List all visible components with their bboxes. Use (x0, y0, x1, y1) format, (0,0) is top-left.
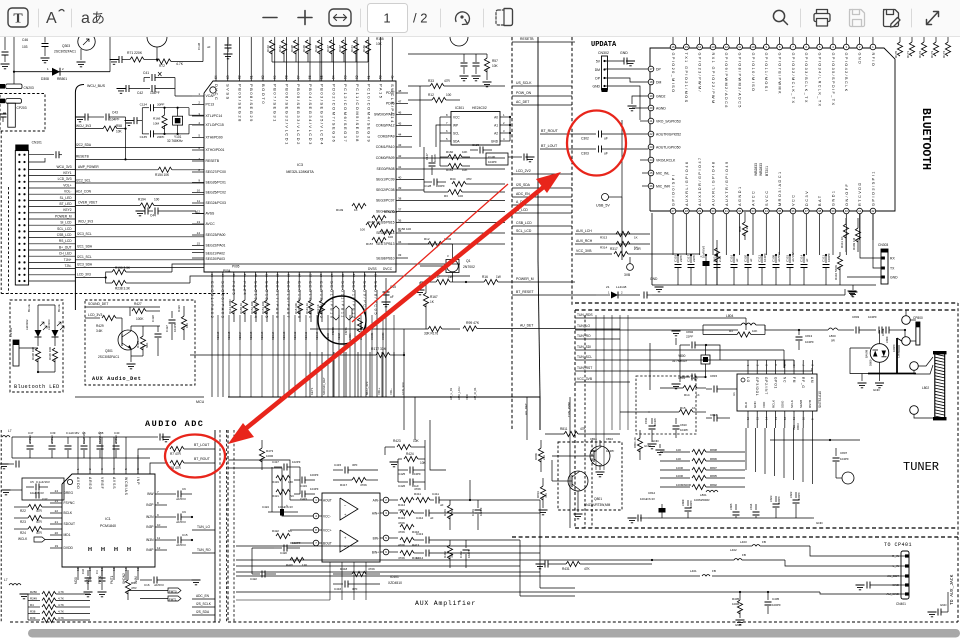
MCU top pin 53 (344, 37, 346, 81)
divider (440, 9, 442, 27)
SI4732 top pin 1 LO (747, 360, 749, 374)
svg-text:A2: A2 (494, 131, 498, 135)
vertical line x652 below BT (651, 213, 653, 285)
MCU bottom pin 30 (364, 272, 366, 290)
svg-text:MCU_3V3: MCU_3V3 (365, 381, 369, 395)
svg-text:SCLK: SCLK (790, 400, 794, 408)
PCM1840 top pin 4 AVSS (113, 437, 115, 474)
capacitor C40 (115, 437, 117, 444)
divider (360, 9, 362, 27)
svg-text:36: 36 (791, 209, 795, 213)
fit width button (329, 9, 351, 26)
svg-text:1K: 1K (692, 406, 696, 410)
resistor R33 47R (430, 83, 444, 88)
BT pin 7 top (792, 37, 794, 44)
MCU bottom pin 27 (331, 272, 333, 290)
svg-text:RX: RX (890, 256, 895, 260)
capacitor C420 102PF (274, 547, 282, 549)
svg-text:AMP_POWER: AMP_POWER (78, 165, 99, 169)
svg-text:HE24C02: HE24C02 (472, 106, 487, 110)
svg-text:RX1 GPIO22/PWM: RX1 GPIO22/PWM (711, 53, 715, 105)
svg-text:100: 100 (388, 235, 393, 239)
MCU bottom pin 22 (276, 272, 278, 290)
svg-text:104PF: 104PF (805, 340, 814, 344)
svg-text:SEG1/PC09: SEG1/PC09 (376, 178, 395, 182)
svg-text:53: 53 (343, 75, 347, 79)
svg-text:GP3/DOL: GP3/DOL (755, 377, 759, 396)
svg-text:10K: 10K (376, 42, 383, 46)
svg-text:LED303: LED303 (47, 319, 51, 330)
capacitor C417 102PF (274, 466, 282, 468)
vertical wires mid (309, 352, 311, 397)
svg-text:20: 20 (649, 106, 653, 110)
resistor R417 470K (352, 477, 366, 482)
svg-text:BT_ROUT: BT_ROUT (541, 129, 559, 133)
svg-text:POWER_M: POWER_M (55, 214, 72, 218)
svg-text:2SC3052FAC1: 2SC3052FAC1 (98, 355, 119, 359)
svg-text:30: 30 (711, 209, 715, 213)
svg-text:33: 33 (751, 209, 755, 213)
svg-text:C802: C802 (686, 330, 694, 334)
svg-text:I2C1_SCL: I2C1_SCL (77, 255, 92, 259)
gnd cap right (150, 436, 158, 438)
svg-text:AUX3DR/GPIO47: AUX3DR/GPIO47 (698, 156, 702, 206)
diode D308 RB501 (14, 71, 110, 73)
wires LED box (19, 347, 38, 349)
circle contacts right (910, 362, 919, 371)
svg-text:GND: GND (620, 51, 628, 55)
resistor R401 4.7K vertical (449, 500, 451, 505)
svg-text:INW: INW (147, 492, 154, 496)
svg-text:R152 10K: R152 10K (250, 301, 254, 314)
svg-text:10uF/6V3: 10uF/6V3 (702, 245, 706, 258)
transistor arc top edge 2 (450, 37, 468, 46)
svg-text:WB2833: WB2833 (754, 163, 758, 176)
svg-text:100PF: 100PF (436, 184, 445, 188)
svg-text:R172: R172 (918, 50, 922, 58)
rotate icon (455, 12, 469, 25)
bottom bus wire of BT section (655, 284, 876, 286)
MCU left pin 5 XTHI/PD00 (192, 137, 204, 139)
IC401 right pins (383, 497, 389, 503)
svg-text:32: 32 (738, 209, 742, 213)
capacitor to gnd x228 (227, 37, 229, 44)
svg-text:uF: uF (604, 137, 608, 141)
resistor R190 3.3K (106, 272, 112, 278)
wire CN302 DP to BT pin18 (605, 78, 649, 82)
wire to resistor R7 (138, 449, 168, 474)
svg-text:46: 46 (398, 110, 402, 114)
svg-text:SOUND_DET: SOUND_DET (322, 377, 326, 395)
svg-text:R803: R803 (796, 423, 800, 430)
resistor R14 1K (683, 385, 697, 390)
AUX section left dashed border (227, 430, 229, 622)
svg-text:LCD_3V3: LCD_3V3 (401, 382, 405, 395)
svg-text:10: 10 (801, 416, 805, 420)
svg-text:16: 16 (671, 45, 675, 49)
svg-text:104PF: 104PF (689, 500, 693, 508)
divider (38, 9, 40, 27)
svg-text:C800: C800 (885, 336, 889, 343)
MCU right pin 35 SEG6/PB14 (396, 232, 505, 234)
svg-text:R143 1K: R143 1K (305, 303, 309, 314)
svg-text:4.7K: 4.7K (58, 610, 64, 614)
svg-text:AUX_RCH: AUX_RCH (576, 239, 593, 243)
svg-text:GND: GND (735, 623, 741, 627)
svg-text:C405: C405 (772, 597, 780, 601)
svg-text:10uF/6.3V: 10uF/6.3V (30, 491, 44, 495)
resistor row above MCU (269, 40, 274, 54)
PCM1840 left pin 24 DREG (50, 492, 62, 494)
svg-text:RESETB: RESETB (520, 37, 534, 41)
svg-text:47: 47 (398, 99, 402, 103)
svg-text:31: 31 (725, 209, 729, 213)
svg-text:R39: R39 (30, 616, 36, 620)
resistor R416 470K (400, 524, 414, 529)
svg-text:ON/OFF: ON/OFF (845, 183, 849, 206)
svg-text:22PF: 22PF (692, 255, 696, 262)
svg-text:uF: uF (440, 503, 444, 507)
svg-text:13: 13 (136, 567, 140, 571)
svg-text:C416: C416 (334, 587, 342, 591)
text tool T button (8, 8, 28, 27)
resistor R414 470K (400, 550, 414, 555)
CN401 pin R_IN (905, 554, 909, 557)
svg-text:LCD_3V3: LCD_3V3 (77, 273, 91, 277)
svg-text:VCC: VCC (465, 394, 469, 400)
svg-text:SEG12: SEG12 (293, 331, 297, 340)
capacitor C308 uF/6V3 (775, 255, 777, 263)
svg-text:R427: R427 (134, 302, 142, 306)
resistor R410 470K (400, 510, 414, 515)
capacitor C805 104PF (735, 504, 737, 510)
svg-text:R57: R57 (492, 59, 498, 63)
svg-text:15: 15 (755, 416, 759, 420)
svg-text:AOUTL/GPIO50: AOUTL/GPIO50 (656, 146, 681, 150)
svg-text:C420: C420 (280, 551, 287, 555)
svg-text:C308: C308 (772, 254, 776, 262)
svg-text:LED302: LED302 (25, 319, 29, 330)
MCU top pin 59 (274, 37, 276, 81)
MCU pin1 marker circle (210, 87, 216, 93)
capacitor CB11 wires (595, 430, 597, 470)
svg-text:41: 41 (858, 209, 862, 213)
svg-text:C424: C424 (262, 505, 269, 509)
svg-text:PB09/SEG28: PB09/SEG28 (237, 84, 242, 123)
svg-text:NC: NC (288, 529, 292, 533)
svg-text:R106 10R: R106 10R (48, 347, 52, 360)
svg-text:C130: C130 (488, 155, 496, 159)
page number box (368, 4, 408, 33)
svg-text:Q801: Q801 (594, 497, 602, 501)
CN101 pin wire nc (29, 274, 76, 276)
svg-text:1: 1 (383, 11, 390, 26)
svg-text:29: 29 (698, 209, 702, 213)
svg-text:R38: R38 (30, 610, 36, 614)
wire BT pin21 (640, 120, 648, 122)
svg-text:C316: C316 (730, 254, 734, 262)
wire BT pin24 (640, 159, 648, 161)
diode D800 BAV99 dual (870, 344, 889, 363)
svg-text:AUXRL/GPIO46: AUXRL/GPIO46 (685, 161, 689, 206)
svg-text:104PF: 104PF (412, 472, 421, 476)
MCU bottom pin 29 (353, 272, 355, 290)
svg-text:L804: L804 (726, 314, 734, 318)
capacitor C411 uF (430, 499, 434, 501)
svg-text:uF/6V3: uF/6V3 (114, 435, 118, 444)
BT pin 37 bottom (804, 208, 810, 214)
svg-text:FMT1: FMT1 (110, 575, 114, 584)
capacitor C47 (29, 437, 31, 444)
svg-text:18: 18 (649, 80, 653, 84)
BT pin 31 bottom (724, 208, 730, 214)
TUNER section top double dashed border (575, 302, 958, 304)
svg-text:SVSS: SVSS (226, 84, 231, 101)
BT pin 42 bottom (870, 208, 876, 214)
svg-text:C414: C414 (416, 556, 424, 560)
ADC top cap row bus (12, 436, 150, 438)
svg-text:C810: C810 (590, 449, 597, 453)
translate icon a-hiragana (81, 10, 105, 27)
svg-text:100PF: 100PF (310, 473, 319, 477)
section border dashed vertical x572 (571, 37, 573, 305)
MCU top pin 54 (333, 37, 335, 81)
PCM1840 top pin 2 AREG (89, 437, 91, 474)
svg-text:33K R176: 33K R176 (424, 332, 438, 336)
svg-text:R412: R412 (398, 503, 406, 507)
CN101 pin wire VOL+ (29, 187, 76, 189)
svg-text:DM: DM (656, 81, 661, 85)
svg-text:BLUETOOTH: BLUETOOTH (919, 108, 932, 170)
BT pin 34 bottom (764, 208, 770, 214)
capacitors C36 C4 bottom left (87, 570, 89, 576)
resistor R16 1W (484, 279, 498, 284)
svg-text:A0: A0 (494, 115, 498, 119)
svg-text:R173: R173 (930, 50, 934, 58)
svg-text:GPO1: GPO1 (773, 377, 777, 389)
connector CN102 (13, 340, 19, 366)
svg-text:12: 12 (197, 209, 201, 213)
svg-text:FMT1: FMT1 (344, 327, 348, 335)
svg-text:R157: R157 (366, 242, 374, 246)
svg-text:COM0: COM0 (381, 332, 385, 340)
svg-text:AU_L_01: AU_L_01 (449, 388, 453, 400)
svg-text:R238: R238 (314, 45, 318, 52)
PCM1840 right pin 11 IN3N (155, 539, 167, 541)
MCU top pin 61 (250, 37, 252, 81)
svg-text:R172: R172 (266, 45, 270, 52)
svg-text:104PF: 104PF (606, 449, 615, 453)
svg-text:16: 16 (746, 416, 750, 420)
resistor R177 33K (376, 352, 390, 357)
svg-text:59: 59 (273, 75, 277, 79)
MCU bottom pin 24 (298, 272, 300, 290)
svg-text:C37: C37 (42, 497, 48, 501)
svg-text:104PF: 104PF (777, 496, 781, 504)
svg-text:VCC: VCC (453, 115, 460, 119)
MCU left pin 10 SEG25/PC02 (192, 192, 204, 194)
svg-text:102PF: 102PF (292, 460, 301, 464)
vertical wires from SI4732 to nets (745, 428, 747, 470)
svg-text:RCLK: RCLK (771, 400, 775, 408)
svg-text:XTHI/PD00: XTHI/PD00 (206, 136, 223, 140)
BT pin 2 top (859, 37, 861, 44)
svg-text:IN4P: IN4P (146, 548, 154, 552)
svg-text:あ: あ (91, 10, 105, 26)
MCU bottom pin 17 (222, 272, 224, 290)
svg-text:10M: 10M (153, 122, 159, 126)
svg-text:AVCC: AVCC (751, 190, 755, 206)
svg-text:104PF: 104PF (881, 328, 885, 336)
BT pin 41 bottom (857, 208, 863, 214)
MCU right pin 41 SEG0/PA08 (396, 168, 505, 170)
svg-text:104PF: 104PF (868, 315, 877, 319)
svg-text:R171: R171 (906, 50, 910, 58)
svg-text:RLO: RLO (744, 401, 748, 408)
transistor Q801b (568, 471, 588, 491)
svg-text:10K: 10K (420, 461, 427, 465)
vertical wires below MCU border (526, 397, 528, 440)
svg-text:104PF: 104PF (680, 428, 689, 432)
svg-text:R183: R183 (278, 45, 282, 52)
svg-text:I2S_SDA: I2S_SDA (196, 610, 210, 614)
svg-text:CB11: CB11 (590, 437, 597, 441)
svg-text:16: 16 (210, 273, 214, 277)
svg-text:NC: NC (783, 377, 787, 383)
BT pin 4 top (832, 37, 834, 44)
capacitor C800 104PF vertical (879, 327, 882, 334)
svg-text:PB07/SEG31: PB07/SEG31 (273, 84, 278, 123)
svg-text:47R: 47R (36, 509, 43, 513)
resistor R428 68K (140, 336, 145, 350)
transistor Q1 2N7002 (446, 260, 459, 273)
BT pin 17 DP (648, 66, 654, 72)
svg-text:I2S_SDA: I2S_SDA (516, 183, 531, 187)
tuner bottom bus (648, 517, 812, 519)
TUNER bottom double dashed border (575, 527, 958, 529)
svg-text:PB08/SEG29: PB08/SEG29 (249, 84, 254, 123)
svg-text:61: 61 (249, 75, 253, 79)
BT pin 1 top (872, 37, 874, 44)
resistor R8 47R BT_ROUT (170, 460, 184, 465)
svg-text:4.7K: 4.7K (176, 62, 184, 66)
svg-text:47R: 47R (36, 520, 43, 524)
svg-text:56: 56 (308, 75, 312, 79)
svg-text:GPIO7B/PWMK: GPIO7B/PWMK (777, 53, 781, 95)
svg-text:C44: C44 (150, 214, 156, 218)
connector CN203 (0, 84, 5, 89)
BT pin 14 top (699, 37, 701, 44)
MCU left pin 3 XTLI/PC14 (192, 115, 204, 117)
svg-text:103: 103 (22, 45, 28, 49)
MCU top pin 64 (215, 37, 217, 81)
svg-text:GND: GND (491, 139, 499, 143)
electrolytic capacitor C319 10uF/6V3 (705, 255, 707, 261)
MCU bottom pin 16 (211, 272, 213, 290)
svg-text:DP: DP (656, 68, 661, 72)
svg-text:uF: uF (805, 258, 809, 262)
section border dashed vertical x512 (511, 37, 513, 430)
svg-text:CSB_LCD: CSB_LCD (57, 233, 72, 237)
svg-text:USB_5V: USB_5V (596, 204, 610, 208)
svg-text:102PF: 102PF (292, 541, 301, 545)
svg-text:R314: R314 (600, 246, 608, 250)
svg-text:TUN_LO: TUN_LO (197, 525, 210, 529)
MCU right pin 37 SEG4/PC06 (396, 211, 505, 213)
svg-text:H: H (127, 547, 131, 553)
svg-text:H: H (114, 547, 118, 553)
svg-text:INP: INP (136, 477, 140, 485)
svg-text:25: 25 (649, 171, 653, 175)
capacitor C302 wire BT_ROUT to pin22 (540, 133, 596, 135)
svg-text:FB: FB (712, 569, 716, 573)
svg-text:RS_LCD: RS_LCD (59, 239, 72, 243)
divider (800, 9, 802, 27)
svg-text:GPIO3/SPI1: GPIO3/SPI1 (871, 170, 875, 206)
wire BT pin20 AGND (632, 107, 648, 109)
svg-text:COM3/PA12: COM3/PA12 (376, 124, 395, 128)
BT pin 8 top (779, 37, 781, 44)
svg-text:3.3K: 3.3K (745, 226, 749, 232)
svg-text:R171: R171 (350, 45, 354, 52)
IC301 right pin dots (509, 116, 511, 118)
svg-text:GPIO35/SPDIF_TX: GPIO35/SPDIF_TX (831, 53, 835, 107)
wires LCD_3V3 right long (172, 264, 460, 272)
svg-text:GPIO32/MCLK_TX: GPIO32/MCLK_TX (791, 53, 795, 105)
svg-text:C6: C6 (182, 487, 186, 491)
resistor R311 1K (845, 218, 847, 224)
svg-text:DVSS: DVSS (368, 267, 377, 271)
svg-text:FMT0: FMT0 (169, 590, 177, 594)
transistor Q301 (118, 330, 138, 350)
svg-text:XTHO/PD01: XTHO/PD01 (206, 148, 225, 152)
MCU bottom pin 19 (244, 272, 246, 290)
svg-text:58: 58 (285, 75, 289, 79)
svg-text:BLUE: BLUE (57, 304, 61, 312)
MCU bottom pin 25 (309, 272, 311, 290)
svg-text:13: 13 (774, 416, 778, 420)
svg-text:26: 26 (319, 273, 323, 277)
svg-text:17: 17 (221, 273, 225, 277)
CN401 pin AU_GND (905, 592, 909, 595)
svg-text:AU_R_01: AU_R_01 (473, 387, 477, 400)
PCM1840 left pin 19 DVDD (50, 547, 62, 549)
circle 3VB (627, 264, 634, 271)
svg-text:C428: C428 (151, 315, 155, 322)
capacitor gnd right of IC301 (508, 156, 522, 158)
svg-text:100: 100 (458, 194, 463, 198)
capacitor C814 104PF (755, 504, 757, 510)
svg-text:104PF: 104PF (110, 118, 119, 122)
svg-text:TO AUX_JACK: TO AUX_JACK (949, 574, 955, 605)
svg-text:R153 10K: R153 10K (261, 301, 265, 314)
connector CP203 top bar (0, 99, 5, 104)
MCU bottom pin 18 (233, 272, 235, 290)
svg-text:38: 38 (818, 209, 822, 213)
svg-text:DC3V: DC3V (805, 190, 809, 206)
svg-text:R428: R428 (136, 340, 140, 348)
svg-text:COM1: COM1 (370, 332, 374, 340)
svg-text:VCC_3VB: VCC_3VB (576, 249, 592, 253)
wires C417 cluster (271, 467, 273, 512)
svg-text:GPIO42/BCLK: GPIO42/BCLK (844, 53, 848, 93)
svg-text:GND: GND (940, 603, 946, 607)
svg-text:BT_ROUT: BT_ROUT (194, 457, 210, 461)
svg-text:R166: R166 (153, 117, 161, 121)
svg-text:C415: C415 (334, 463, 342, 467)
svg-text:ME32L128K8TA: ME32L128K8TA (286, 170, 314, 174)
capacitor C315 uF/16V (789, 255, 791, 263)
